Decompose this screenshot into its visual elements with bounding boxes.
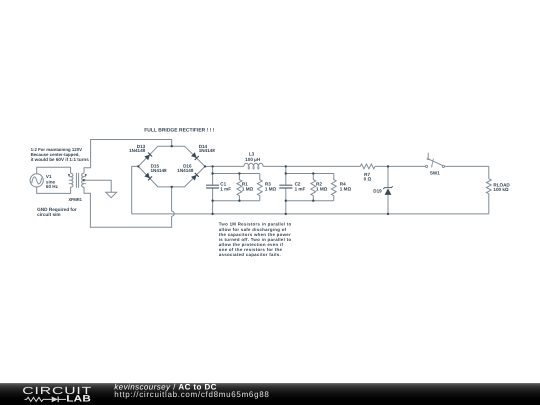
junction dot D19 top <box>387 165 389 167</box>
wire L3 to R7 <box>263 165 360 167</box>
junction dot R1 top <box>238 172 240 174</box>
junction dot bridge top node <box>171 145 173 147</box>
junction dot R2 bottom <box>312 200 314 202</box>
wire from hop up to bridge bottom node <box>171 187 173 211</box>
footer bar <box>0 383 540 405</box>
wire hop over ground rail <box>172 211 175 216</box>
resistor RLOAD <box>486 179 491 194</box>
resistor R7 <box>360 164 375 169</box>
XFMR1 core lines <box>76 173 78 188</box>
resistor R4 with leads <box>331 174 336 201</box>
diode D13 (bridge upper-left) <box>144 153 152 161</box>
junction dot bridge left node <box>137 165 139 167</box>
wire V1 bottom to XFMR1 primary bottom <box>37 187 71 193</box>
wire C1 branch vertical top <box>212 166 214 185</box>
junction dot C2 bottom rail <box>285 213 287 215</box>
wire C2 branch vertical bottom <box>285 188 287 214</box>
junction dot C2 sub-rail top <box>285 172 287 174</box>
junction dot C1 bottom rail <box>211 213 213 215</box>
junction dot C2 sub-rail bottom <box>285 200 287 202</box>
junction dot R1 bottom <box>238 200 240 202</box>
wire top output rail: bridge to L3 <box>205 165 244 167</box>
wire sub-rail 2 bottom <box>286 200 334 202</box>
junction dot bridge right node <box>204 165 206 167</box>
XFMR1 primary polarity dot <box>68 174 70 176</box>
zener diode D19 cathode bar <box>383 186 393 189</box>
capacitor C1 plates <box>206 185 219 188</box>
wire sub-rail 1 top <box>213 173 260 175</box>
wire R7 to SW1 <box>375 165 425 167</box>
wire XFMR1 secondary top to bridge top <box>84 140 172 174</box>
logo resistor zigzag <box>25 397 52 401</box>
wire RLOAD leads <box>488 166 490 214</box>
capacitor C2 plates <box>279 185 292 188</box>
diode D16 (bridge lower-right) <box>191 173 199 181</box>
XFMR1 secondary loop tails <box>84 177 86 185</box>
wire sub-rail 1 bottom <box>213 200 260 202</box>
junction dot XFMR1 center tap <box>83 179 85 181</box>
note text: discharge resistors <box>219 222 292 257</box>
voltage source V1 circle <box>30 174 43 187</box>
junction dot C2 top rail <box>285 165 287 167</box>
bridge rectifier outline <box>138 146 205 187</box>
junction dot C1 sub-rail top <box>211 172 213 174</box>
wire XFMR1 center tap to ground <box>84 180 111 192</box>
svg-text:http://circuitlab.com/cfd8mu65: http://circuitlab.com/cfd8mu65m6g88 <box>114 390 269 399</box>
wire bridge left corner down to bottom rail <box>132 166 139 214</box>
junction dot bridge bottom node <box>171 186 173 188</box>
diode D14 (bridge upper-right) <box>191 152 199 160</box>
logo diode <box>52 397 58 403</box>
junction dot C1 sub-rail bottom <box>211 200 213 202</box>
wire D19 branch vertical top <box>387 166 389 187</box>
wire V1 top to XFMR1 primary top <box>37 167 71 174</box>
switch SW1 <box>426 153 445 169</box>
wire SW1 to RLOAD <box>445 165 489 167</box>
resistor R2 with leads <box>311 174 316 201</box>
junction dot D19 bottom <box>387 213 389 215</box>
resistor R1 with leads <box>237 174 242 201</box>
ground symbol <box>106 192 117 197</box>
transformer XFMR1 primary coil <box>71 173 73 187</box>
XFMR1 primary loop tails <box>69 177 71 185</box>
resistor R3 with leads <box>257 174 262 201</box>
transformer XFMR1 secondary coil <box>82 173 84 187</box>
diode D15 (bridge lower-left) <box>144 173 152 181</box>
wire D19 branch vertical bottom <box>387 195 389 214</box>
V1 sine squiggle <box>32 177 42 184</box>
wire bottom ground rail <box>132 213 489 215</box>
wire XFMR1 secondary bottom to bridge bottom (lower run) <box>84 187 172 227</box>
zener diode D19 triangle <box>385 188 392 195</box>
L3 loop tails <box>248 166 259 169</box>
svg-text:LAB: LAB <box>66 394 91 404</box>
inductor L3 <box>244 163 263 166</box>
XFMR1 secondary polarity dot <box>85 174 87 176</box>
junction dot R2 top <box>312 172 314 174</box>
wire sub-rail 2 top <box>286 173 334 175</box>
wire C2 branch vertical top <box>285 166 287 185</box>
wire C1 branch vertical bottom <box>212 188 214 214</box>
junction dot C1 top rail <box>211 165 213 167</box>
